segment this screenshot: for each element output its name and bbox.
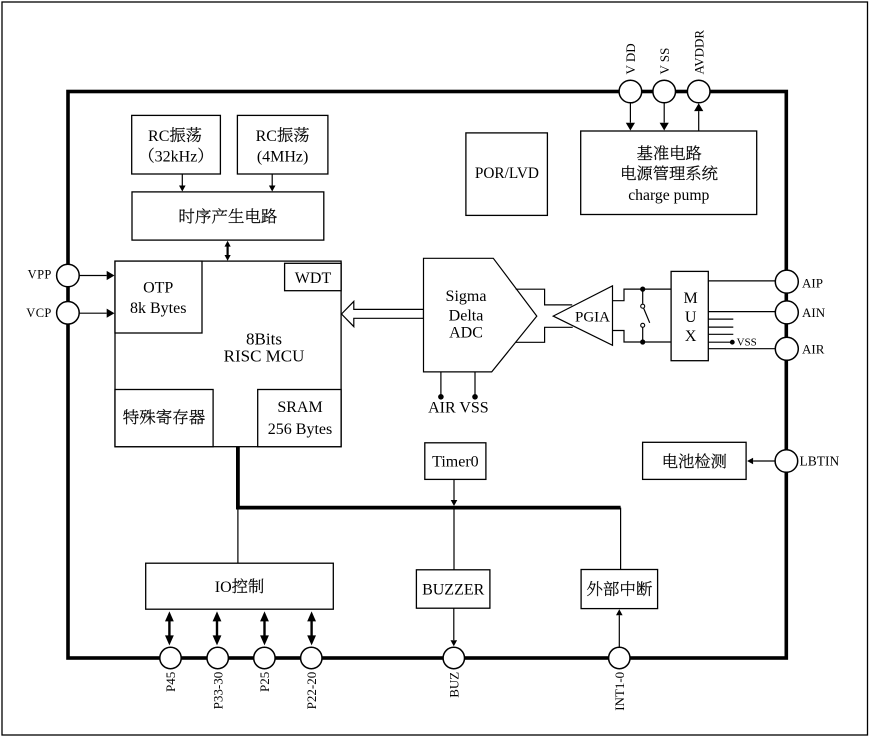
node VSS xyxy=(730,340,735,345)
svg-text:P33-30: P33-30 xyxy=(210,672,225,710)
wire ADC AIR pin xyxy=(440,372,442,396)
switch xyxy=(642,289,644,304)
svg-text:PGIA: PGIA xyxy=(575,309,610,325)
wire INT1-0 to external interrupt, arrow xyxy=(618,615,620,647)
wire IO to P25, double arrow xyxy=(263,620,265,636)
svg-text:VCP: VCP xyxy=(26,306,52,320)
svg-text:U: U xyxy=(685,309,697,326)
pin P33-30 xyxy=(207,647,228,668)
pin VDD xyxy=(619,80,642,103)
svg-text:BUZZER: BUZZER xyxy=(422,582,485,599)
block POR/LVD xyxy=(466,133,548,216)
block OTP 8k Bytes xyxy=(115,261,202,333)
wire BUZZER to BUZ, arrow xyxy=(453,608,455,640)
svg-text:V SS: V SS xyxy=(657,48,672,75)
svg-text:8k Bytes: 8k Bytes xyxy=(130,300,186,317)
block RC oscillator 32kHz xyxy=(132,115,221,174)
svg-text:VPP: VPP xyxy=(28,267,52,281)
svg-text:OTP: OTP xyxy=(143,280,173,297)
wire bus to BUZZER xyxy=(453,509,455,570)
pin AVDDR xyxy=(687,80,710,103)
wire RC4M to timing, arrow xyxy=(271,175,273,186)
wire IO to P45, double arrow xyxy=(168,620,170,636)
wire MUX stub 1 xyxy=(708,318,733,320)
svg-text:Sigma: Sigma xyxy=(446,288,487,305)
wire power block to AVDDR, arrow up xyxy=(698,111,700,130)
pin BUZ xyxy=(443,647,464,668)
wire bus to external interrupt xyxy=(620,508,622,570)
connector ADC to PGIA upper xyxy=(516,289,573,305)
wire VPP to OTP, arrow xyxy=(79,275,107,277)
svg-text:P45: P45 xyxy=(163,672,178,692)
svg-text:Delta: Delta xyxy=(449,307,484,324)
svg-text:M: M xyxy=(683,290,697,307)
block Sigma Delta ADC xyxy=(424,258,537,372)
block special registers 特殊寄存器 xyxy=(115,390,213,447)
wire MUX to AIP xyxy=(708,280,775,282)
svg-text:AIR: AIR xyxy=(802,342,825,357)
amplifier PGIA xyxy=(553,286,612,346)
block battery detect 电池检测 xyxy=(643,442,747,479)
pin P25 xyxy=(254,647,275,668)
svg-text:IO: IO xyxy=(215,579,232,596)
svg-text:P25: P25 xyxy=(257,672,272,692)
svg-text:POR/LVD: POR/LVD xyxy=(475,165,539,182)
svg-text:WDT: WDT xyxy=(295,270,332,287)
svg-text:8Bits: 8Bits xyxy=(246,329,282,348)
wire Timer0 to bus, arrow xyxy=(453,479,455,500)
svg-text:AIN: AIN xyxy=(802,305,826,320)
wire MUX VSS stub xyxy=(708,341,731,343)
svg-text:LBTIN: LBTIN xyxy=(800,454,840,469)
svg-text:P22-20: P22-20 xyxy=(304,672,319,710)
svg-text:32kHz: 32kHz xyxy=(155,148,198,165)
wire PGIA upper stub to MUX xyxy=(613,289,671,301)
wire MUX to AIR xyxy=(708,348,775,350)
node switch bottom xyxy=(640,339,645,344)
block IO control IO控制 xyxy=(146,563,334,609)
block reference/power management 基准电路 电源管理系统 charge pump xyxy=(581,131,757,215)
pin VSS xyxy=(653,80,676,103)
wire VSS to power block, arrow xyxy=(663,103,665,123)
wire IO to P33-30, double arrow xyxy=(216,620,218,636)
pin AIP xyxy=(775,270,798,293)
chip boundary frame xyxy=(68,92,786,659)
wire PGIA lower stub to MUX xyxy=(613,331,671,343)
svg-text:AVDDR: AVDDR xyxy=(691,30,706,75)
svg-text:(4MHz): (4MHz) xyxy=(257,149,309,166)
svg-text:AIR VSS: AIR VSS xyxy=(428,400,489,417)
block 8Bits RISC MCU xyxy=(115,261,341,447)
svg-text:RC: RC xyxy=(148,128,169,145)
svg-text:X: X xyxy=(685,328,697,345)
wire RC32k to timing, arrow xyxy=(181,175,183,186)
pin LBTIN xyxy=(775,450,798,473)
block BUZZER xyxy=(416,570,490,608)
svg-text:BUZ: BUZ xyxy=(447,672,462,698)
pin P45 xyxy=(160,647,181,668)
wire VDD to power block, arrow xyxy=(629,103,631,123)
svg-text:V DD: V DD xyxy=(623,43,638,74)
wire ADC VSS pin xyxy=(474,372,476,396)
wire MUX stub 3 xyxy=(708,333,733,335)
wire MUX stub 2 xyxy=(708,326,733,328)
pin INT1-0 xyxy=(609,647,630,668)
pin P22-20 xyxy=(301,647,322,668)
pin AIN xyxy=(775,301,798,324)
block MUX xyxy=(671,271,708,360)
block WDT xyxy=(285,263,342,290)
block external interrupt 外部中断 xyxy=(581,570,658,609)
svg-text:INT1-0: INT1-0 xyxy=(612,672,627,711)
bus arrow ADC to MCU (hollow) xyxy=(342,301,424,326)
node VSS xyxy=(472,394,478,400)
block Timer0 xyxy=(425,443,486,480)
svg-text:VSS: VSS xyxy=(737,337,757,349)
svg-text:RC: RC xyxy=(256,128,277,145)
pin VPP xyxy=(57,264,80,287)
wire MUX to AIN xyxy=(708,311,775,313)
wire VCP to OTP, arrow xyxy=(79,312,107,314)
wire bus to IO control xyxy=(237,508,239,564)
node AIR xyxy=(438,394,444,400)
svg-text:RISC MCU: RISC MCU xyxy=(224,347,305,366)
svg-text:AIP: AIP xyxy=(802,276,823,291)
pin VCP xyxy=(57,302,80,325)
block timing generator 时序产生电路 xyxy=(132,192,324,240)
connector ADC to PGIA lower xyxy=(516,327,573,342)
block RC oscillator 4MHz xyxy=(237,115,328,174)
svg-text:256 Bytes: 256 Bytes xyxy=(268,421,332,438)
svg-text:Timer0: Timer0 xyxy=(432,454,479,471)
bus main thick wire xyxy=(238,447,621,508)
svg-text:ADC: ADC xyxy=(449,325,483,342)
node switch top xyxy=(640,287,645,292)
wire LBTIN to battery detect, arrow xyxy=(753,460,775,462)
pin AIR xyxy=(775,337,798,360)
svg-text:SRAM: SRAM xyxy=(277,399,322,416)
wire IO to P22-20, double arrow xyxy=(310,620,312,636)
svg-text:charge pump: charge pump xyxy=(628,187,709,204)
block SRAM 256 Bytes xyxy=(258,390,341,447)
wire timing to MCU, double arrow xyxy=(227,246,229,256)
